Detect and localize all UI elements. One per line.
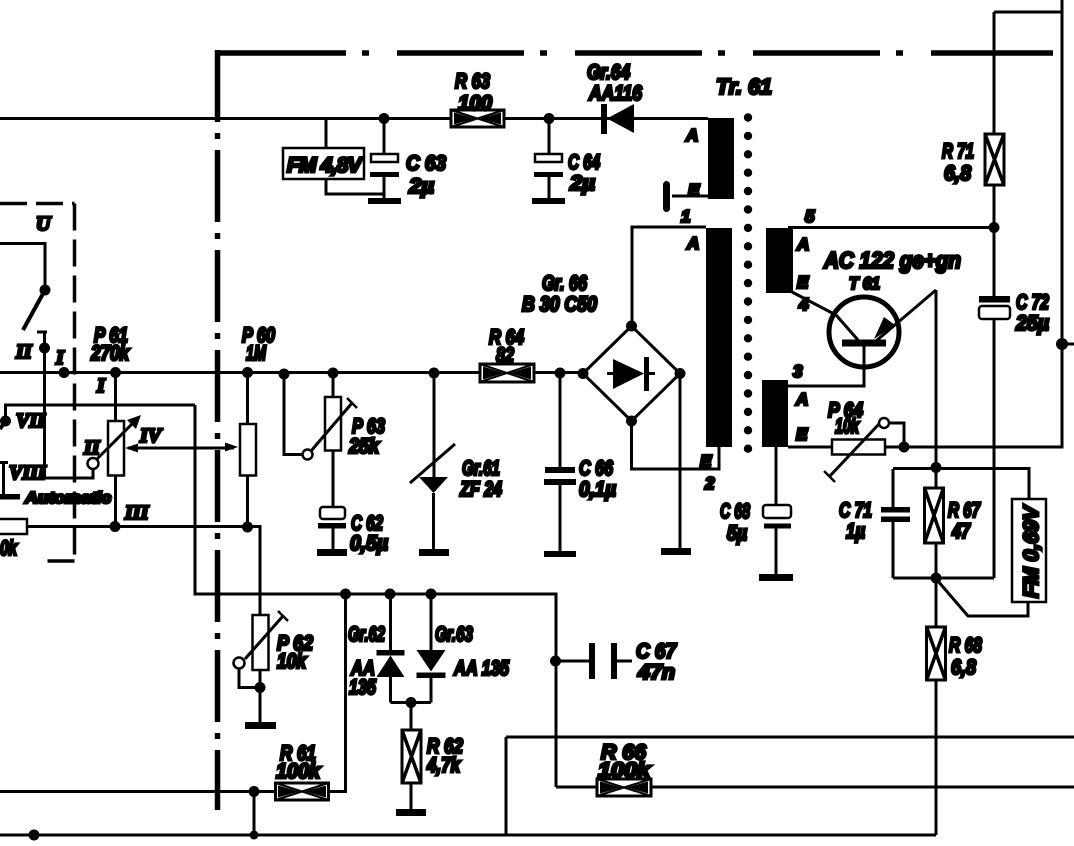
svg-text:A: A [686,234,699,253]
svg-text:47n: 47n [637,661,675,684]
bridge rectifier Gr.66 [522,272,686,427]
svg-text:82: 82 [496,344,514,367]
svg-text:I: I [55,347,65,369]
diode Gr.64 AA116 [587,61,642,134]
svg-text:II: II [15,341,33,363]
transformer winding P1 (A/E top left) [663,118,734,212]
svg-text:A: A [795,390,808,409]
switch box dashed [0,204,75,562]
parallel bottom node [931,573,942,584]
ground C66 [544,551,576,557]
wire III row [27,527,260,616]
svg-text:0,5µ: 0,5µ [350,532,388,555]
switch arm U [0,244,51,331]
svg-text:I: I [96,375,106,397]
switch contact VIII [0,462,47,500]
capacitor C62 [317,507,388,556]
potentiometer P61 [83,324,141,527]
resistor R68 [927,578,983,835]
svg-text:0,1µ: 0,1µ [579,478,616,501]
capacitor C66 [544,368,616,558]
svg-text:C 67: C 67 [636,640,677,663]
svg-text:E: E [797,273,809,292]
ground C63 [368,198,401,204]
resistor R61 [0,594,346,800]
wire from R61 node down [253,792,256,836]
svg-text:47: 47 [951,520,971,543]
label FM 4,8V box [283,148,364,179]
svg-text:Tr. 61: Tr. 61 [716,74,772,99]
svg-text:C 68: C 68 [720,500,750,523]
ground under transformer [661,548,691,555]
svg-text:C 71: C 71 [839,499,872,522]
svg-text:R 71: R 71 [942,140,974,163]
potentiometer P63 [279,368,386,508]
svg-text:10k: 10k [277,650,307,673]
svg-text:A: A [685,126,698,145]
svg-text:E: E [796,425,808,444]
diode Gr.62 [348,594,405,703]
svg-text:AA 135: AA 135 [453,657,509,680]
svg-text:C 66: C 66 [579,457,613,480]
svg-text:25µ: 25µ [1015,312,1049,335]
wire node to FM box [937,580,1028,616]
label FM 0,69V box [1012,499,1046,602]
svg-text:VIII: VIII [9,462,47,484]
svg-text:E: E [688,181,700,200]
svg-text:VII: VII [16,410,46,432]
potentiometer P64 [824,399,910,482]
transformer winding S2 (3) [762,362,808,447]
svg-text:ZF 24: ZF 24 [459,478,502,501]
svg-text:Gr.61: Gr.61 [462,457,500,480]
wire FM4.8V connectors [326,119,384,195]
potentiometer P62 [234,611,314,729]
wire bridge right to ground [679,374,682,549]
svg-text:135: 135 [349,676,376,699]
resistor R66 [556,741,1074,796]
svg-text:R 68: R 68 [949,634,982,657]
ground Gr.61 [419,549,449,556]
svg-text:1M: 1M [246,342,266,365]
svg-text:100: 100 [458,92,492,115]
diode Gr.63 [417,594,510,703]
svg-text:1: 1 [681,207,690,226]
capacitor C63 [368,119,446,205]
svg-text:1µ: 1µ [846,520,865,543]
svg-text:U: U [36,213,52,235]
node stub right edge [1056,338,1074,350]
svg-text:100k: 100k [276,760,321,783]
transistor T61 AC122 [788,247,961,468]
svg-text:AA116: AA116 [588,82,642,105]
resistor R63 [451,70,504,127]
svg-text:IV: IV [139,425,163,447]
svg-text:3: 3 [793,362,803,381]
switch contact VII [0,410,46,432]
ground C64 [532,198,565,204]
resistor R64 [480,326,534,382]
svg-text:C 72: C 72 [1016,291,1049,314]
transformer winding S1 (5/4) [766,207,994,315]
node switch I on main wire [59,367,70,378]
resistor R62 [391,697,464,816]
ground P62 [245,722,276,729]
svg-text:Gr.62: Gr.62 [348,623,385,646]
svg-text:6,8: 6,8 [944,162,971,185]
wire main middle horizontal [0,371,583,374]
capacitor C72 [979,291,1049,578]
svg-text:2µ: 2µ [408,175,434,198]
svg-text:0k: 0k [0,537,18,560]
svg-text:Gr.64: Gr.64 [587,61,630,84]
capacitor C67 [550,640,677,684]
svg-text:Gr. 66: Gr. 66 [542,272,587,295]
wire bottom node [893,577,994,580]
svg-text:5: 5 [805,207,815,226]
parallel R67/C71 top node [931,462,942,473]
svg-text:III: III [124,502,150,524]
wire long row y737 [506,737,1074,835]
svg-text:R 63: R 63 [455,70,490,93]
svg-text:R 67: R 67 [948,499,981,522]
node junction C63 top [379,113,390,124]
svg-text:A: A [796,235,809,254]
wire bottom row [0,834,936,837]
svg-text:25k: 25k [348,435,380,458]
svg-text:100k: 100k [598,759,651,782]
node junction C64 top [544,113,555,124]
resistor R67 [925,468,981,579]
wire main top horizontal [0,117,708,120]
ground C62 [317,549,347,556]
svg-text:10k: 10k [835,415,860,438]
resistor R71 [942,12,1004,296]
resistor 0k partial at left [0,519,27,560]
svg-text:2: 2 [704,474,715,493]
arrow coupling IV [125,425,238,453]
transformer core dotted line [744,113,752,453]
wire VII net: down-left long path [195,405,556,787]
capacitor C68 [720,447,793,581]
svg-text:II: II [83,437,101,459]
capacitor C64 [532,119,600,205]
potentiometer P60 [240,324,275,533]
svg-text:4,7k: 4,7k [426,754,461,777]
wire top right corner [788,0,1062,447]
svg-text:270k: 270k [90,342,130,365]
svg-text:Gr.63: Gr.63 [435,623,473,646]
svg-text:B 30 C50: B 30 C50 [522,293,597,316]
svg-text:C 64: C 64 [568,151,600,174]
svg-text:6,8: 6,8 [951,656,976,679]
node III [110,521,121,532]
transformer winding P2 (1/2) [632,207,733,493]
svg-text:5µ: 5µ [727,522,747,545]
svg-text:T 61: T 61 [849,274,880,293]
ground C68 [759,574,793,581]
node P61 top [110,367,121,378]
switch contact II [15,332,93,478]
wire top node to FM box [893,469,1029,500]
svg-text:AC 122 ge+gn: AC 122 ge+gn [823,247,961,273]
svg-text:FM 0,69V: FM 0,69V [1020,504,1043,598]
svg-text:FM 4,8V: FM 4,8V [287,154,364,177]
zener Gr.61 ZF24 [410,368,502,557]
wire row y594 [340,589,351,600]
svg-text:2µ: 2µ [569,172,595,195]
svg-text:C 63: C 63 [406,152,446,175]
svg-text:Automatic: Automatic [24,490,111,507]
capacitor C71 [839,469,910,578]
node winding5 to R71 [989,222,1000,233]
ground R62 [396,809,426,816]
